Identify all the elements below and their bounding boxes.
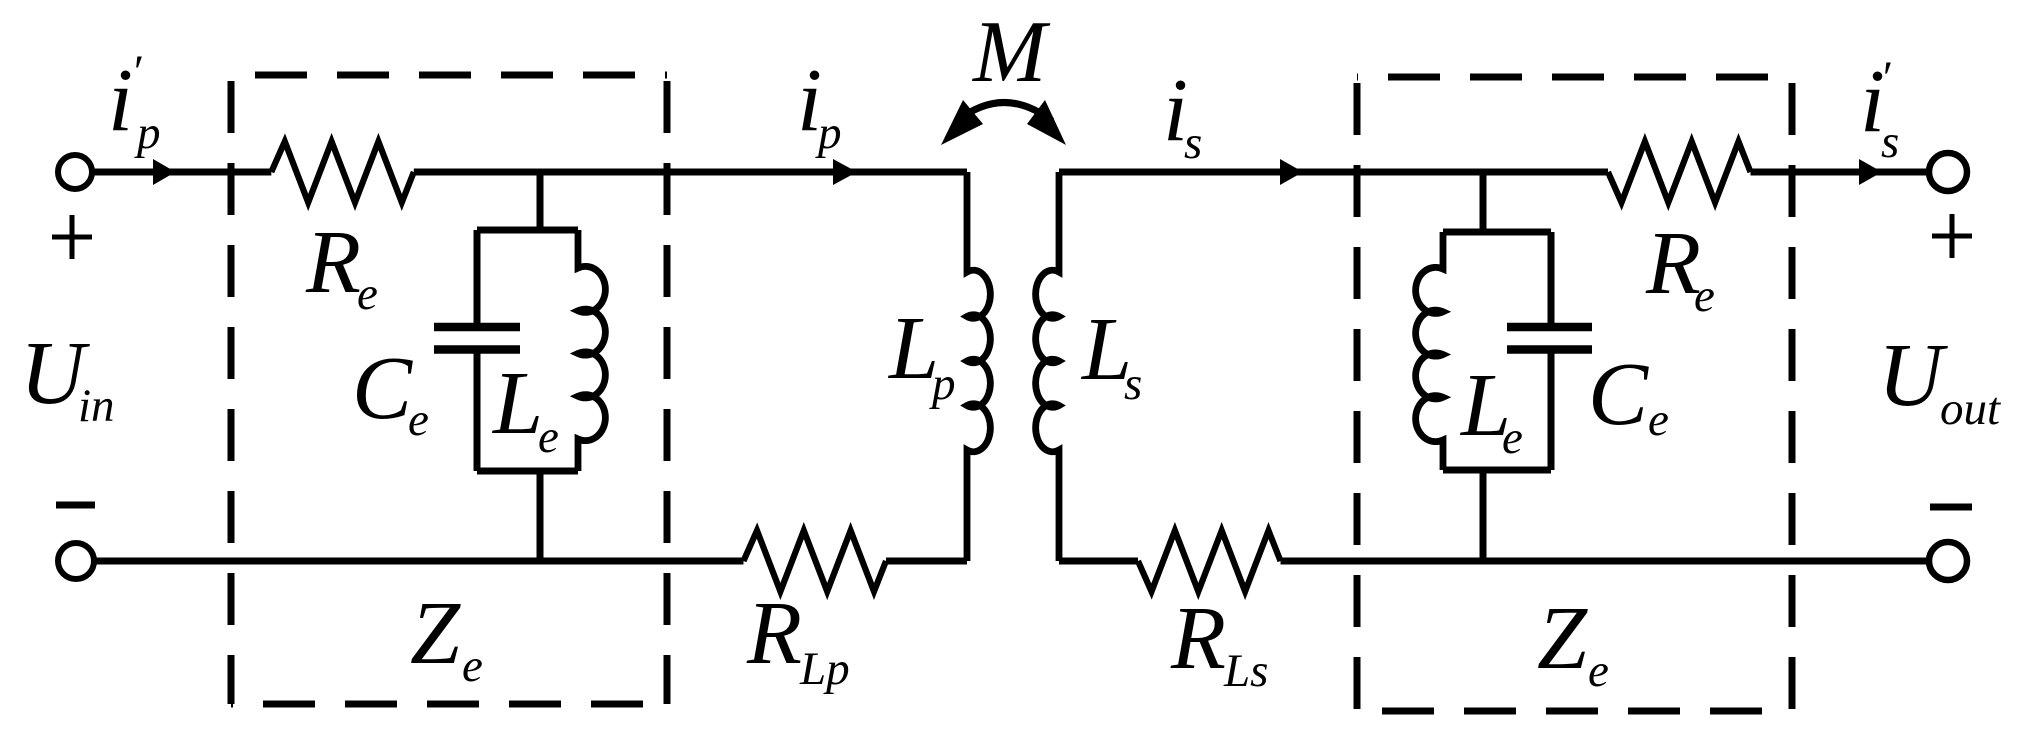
svg-text:e: e — [1648, 394, 1669, 446]
wire node lead bottom left — [537, 471, 544, 561]
svg-text:i: i — [108, 51, 133, 150]
wire node lead top right — [1480, 172, 1487, 232]
svg-text:e: e — [357, 268, 378, 320]
svg-text:e: e — [1588, 645, 1609, 697]
svg-text:e: e — [462, 640, 483, 692]
wire bottom rail secondary — [1059, 558, 1929, 565]
wire top rail primary — [92, 169, 967, 176]
wire node lead top left — [537, 172, 544, 230]
svg-text:C: C — [352, 339, 413, 438]
svg-text:′: ′ — [131, 46, 142, 98]
svg-text:Z: Z — [1537, 589, 1588, 688]
resistor Re left — [271, 142, 413, 203]
svg-text:e: e — [408, 394, 429, 446]
wire block top right — [1443, 229, 1551, 236]
svg-text:s: s — [1124, 358, 1142, 410]
wire block top left — [477, 227, 578, 234]
arrow current ip' input — [153, 159, 176, 185]
wire node lead bottom right — [1480, 470, 1487, 561]
inductor Ls — [1036, 172, 1059, 561]
plus sign left — [52, 215, 92, 259]
resistor RLs — [1138, 531, 1281, 592]
svg-text:p: p — [929, 358, 956, 410]
svg-text:Z: Z — [410, 584, 461, 683]
svg-text:out: out — [1940, 383, 2001, 435]
minus sign right — [1930, 504, 1972, 511]
mutual coupling arrow M — [957, 103, 1052, 122]
svg-text:R: R — [1645, 214, 1701, 313]
resistor Re right — [1608, 142, 1751, 203]
resistor RLp — [744, 531, 887, 592]
svg-text:R: R — [1170, 589, 1226, 688]
capacitor Ce left — [434, 230, 520, 471]
minus sign left — [56, 502, 95, 509]
svg-text:M: M — [971, 4, 1051, 101]
plus sign right — [1932, 214, 1972, 258]
arrow current is — [1280, 159, 1303, 185]
svg-text:e: e — [538, 411, 559, 463]
wire bottom rail primary — [94, 558, 967, 565]
svg-text:Ls: Ls — [1223, 645, 1268, 697]
svg-text:e: e — [1502, 412, 1523, 464]
output terminal bottom — [1929, 542, 1967, 580]
svg-text:′: ′ — [1880, 52, 1891, 104]
svg-text:p: p — [815, 107, 842, 159]
svg-text:R: R — [746, 584, 802, 683]
dashed box Ze left — [231, 75, 667, 704]
output terminal top — [1929, 153, 1967, 191]
inductor Le left — [578, 230, 605, 471]
svg-text:e: e — [1694, 270, 1715, 322]
wire block bottom left — [477, 468, 578, 475]
wire top rail secondary — [1059, 169, 1929, 176]
arrow current is' output — [1859, 159, 1882, 185]
svg-text:s: s — [1881, 116, 1899, 168]
svg-text:in: in — [78, 380, 115, 432]
svg-text:s: s — [1184, 117, 1202, 169]
svg-text:p: p — [134, 107, 161, 159]
inductor Le right — [1416, 232, 1443, 470]
input terminal bottom — [58, 543, 94, 579]
svg-text:L: L — [491, 354, 543, 453]
arrow current ip — [833, 159, 857, 185]
svg-text:U: U — [1878, 326, 1948, 425]
svg-text:R: R — [305, 213, 361, 312]
dashed box Ze right — [1357, 77, 1792, 711]
inductor Lp — [967, 172, 990, 561]
capacitor Ce right — [1507, 232, 1592, 470]
svg-text:Lp: Lp — [799, 643, 850, 695]
svg-text:C: C — [1588, 345, 1649, 444]
input terminal top — [58, 155, 92, 189]
wire block bottom right — [1443, 467, 1551, 474]
